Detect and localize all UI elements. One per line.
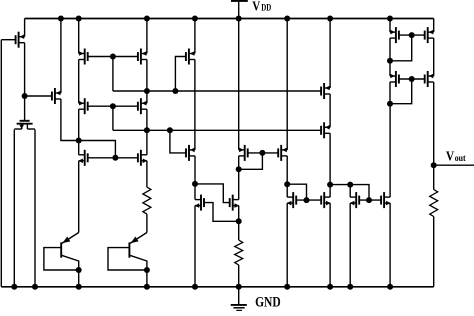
wire wireB to M11 drain — [146, 130, 148, 155]
wire M11 source to R1 — [146, 161, 148, 187]
node P2L drain tie — [387, 101, 393, 107]
ground GND symbol — [231, 287, 247, 311]
resistor R2 — [235, 240, 243, 265]
svg-text:V: V — [252, 0, 260, 15]
transistor M6 (PMOS) — [79, 98, 88, 114]
wire Vout to edge — [434, 164, 474, 166]
wire M6-M7 gates — [88, 105, 138, 107]
transistor M10 (NMOS) — [78, 150, 87, 166]
node M3 source rail — [144, 16, 150, 22]
node MC1 right leg gnd — [32, 284, 38, 290]
transistor M14 (PMOS diode) — [239, 145, 248, 161]
transistor M20 (PMOS) — [425, 27, 434, 43]
wire P1R drain down — [433, 38, 435, 76]
transistor M23 (PMOS diode) — [390, 71, 399, 87]
node P1 gate junction — [409, 32, 415, 38]
wire M21 drain up — [349, 185, 351, 198]
wire M16 source down — [238, 206, 240, 222]
wire R1 to Q2 — [146, 214, 148, 232]
wire M5 gate — [25, 95, 52, 97]
node M17/M18 gate junction — [304, 197, 310, 203]
wire M12 gate drop — [170, 130, 186, 153]
wire M12 drain down — [194, 156, 196, 184]
wire gate tie drop — [239, 153, 263, 169]
wire P2L source — [389, 61, 391, 76]
wire M8 drain to M9 — [329, 94, 331, 127]
node P1L drain tie — [387, 58, 393, 64]
wire M13 gate path — [204, 203, 239, 222]
wire M1 drain down — [24, 43, 26, 121]
wire M2-M3 gates — [88, 56, 138, 58]
wire B (cascode gates) — [113, 129, 321, 131]
transistor M19 (PMOS diode) — [390, 27, 399, 43]
transistor Q2 (PNP diode) — [108, 233, 150, 274]
wire P2 gates — [399, 78, 425, 80]
resistor R1 — [143, 187, 151, 214]
wire P2R drain to Vout — [433, 82, 435, 165]
transistor M1 (PMOS startup) — [16, 32, 25, 48]
transistor M22 (NMOS) — [381, 192, 390, 208]
node M1 drain / M5 gate — [22, 93, 28, 99]
transistor M17 (NMOS diode) — [287, 192, 296, 208]
node wireA M4 gate tap — [172, 88, 178, 94]
node M13 gnd rail — [192, 284, 198, 290]
wire M17 diode tie — [287, 184, 306, 200]
wire M2 drain down — [78, 60, 80, 104]
node P1L source rail — [387, 16, 393, 22]
node M10/M11 gate junction — [112, 155, 118, 161]
node Q2 gnd rail — [144, 284, 150, 290]
wire P1 gates — [399, 34, 425, 36]
wire M4 source up — [194, 19, 196, 54]
wire M8 source up — [329, 19, 331, 89]
label VDD — [252, 0, 271, 15]
wire M14 drain to M16 — [238, 169, 240, 199]
wire M9 drain down — [329, 133, 331, 184]
wire gate node down to wireB — [112, 106, 114, 130]
wire VDD rail — [25, 18, 434, 20]
transistor M13 (NMOS) — [195, 195, 204, 211]
wire M17-M18 gates — [296, 199, 321, 201]
wire M14-M15 gates — [248, 152, 279, 154]
node wireB M12 gate tap — [167, 127, 173, 133]
node P2 gate junction — [409, 76, 415, 82]
label GND — [255, 293, 281, 310]
wire M22 drain up — [389, 104, 391, 197]
node M12 drain / M13 drain — [192, 181, 198, 187]
wire M17 source down — [286, 203, 288, 287]
capacitor MC1 (MOS cap) — [14, 121, 35, 129]
wire P1L source up — [389, 19, 391, 33]
wire VDD drop to M15 — [286, 19, 288, 150]
node M2 source rail — [76, 16, 82, 22]
node GND stem junction — [236, 284, 242, 290]
wire M1 source to VDD rail — [24, 19, 26, 37]
wire M18 source down — [329, 203, 331, 287]
wire VDD drop to M14 — [238, 19, 240, 150]
wire M6 drain down — [78, 109, 80, 140]
wire M22 source down — [389, 203, 391, 287]
node M9 drain junction — [327, 182, 333, 188]
transistor M5 (PMOS) — [52, 88, 61, 104]
node M18 gnd rail — [327, 284, 333, 290]
wire P1L drain down — [389, 38, 391, 61]
transistor M3 (PMOS) — [138, 49, 147, 65]
node M21 drain tap — [347, 182, 353, 188]
transistor M2 (PMOS) — [79, 49, 88, 65]
wire Q2 to gnd — [146, 270, 148, 287]
transistor M21 (NMOS diode) — [350, 192, 359, 208]
node M15 source rail — [284, 16, 290, 22]
transistor M8 (PMOS) — [321, 83, 330, 99]
resistor R3 — [430, 190, 438, 217]
wire M4 gate drop — [175, 57, 186, 92]
node M15 drain / M17 drain — [284, 181, 290, 187]
node VDD stem junction — [236, 16, 242, 22]
wire M4 drain down to M12 — [194, 60, 196, 150]
node M14/M15 gate junction — [259, 150, 265, 156]
node wireA M3 drain — [144, 88, 150, 94]
wire R2 top lead — [238, 221, 240, 240]
wire M2 source up — [78, 19, 80, 54]
wire M1 gate to ground — [0, 40, 2, 287]
transistor M15 (PMOS) — [278, 145, 287, 161]
wire P2L drain down — [389, 82, 391, 104]
transistor Q1 (PNP diode) — [44, 233, 82, 274]
wire M5 drain to node N1 — [61, 99, 79, 141]
node M22 gnd rail — [387, 284, 393, 290]
transistor M4 (PMOS) — [186, 49, 195, 65]
wire A (first mirror gates) — [113, 90, 321, 92]
node Q1 gnd rail — [76, 284, 82, 290]
wire M7 drain to wireB — [146, 109, 148, 130]
node N1 — [76, 138, 82, 144]
wire M7 source up — [146, 91, 148, 103]
node M5 source rail — [58, 16, 64, 22]
svg-text:out: out — [455, 154, 467, 164]
svg-text:GND: GND — [255, 293, 281, 310]
wire M17 drain up — [286, 184, 288, 197]
transistor M9 (PMOS) — [321, 122, 330, 138]
wire GND rail — [1, 286, 433, 288]
node M4 source rail — [192, 16, 198, 22]
wire M3 drain to wireA — [146, 60, 148, 92]
transistor M11 (NMOS) — [138, 150, 147, 166]
wire P2 gate tie — [390, 79, 412, 104]
node M21 gnd rail — [347, 284, 353, 290]
wire M16 gate path — [195, 184, 230, 203]
transistor M24 (PMOS) — [425, 71, 434, 87]
wire M21 source down — [349, 203, 351, 287]
wire M18 drain up — [329, 185, 331, 198]
node M17 gnd rail — [284, 284, 290, 290]
power VDD symbol — [231, 0, 248, 19]
wire M13 source down — [194, 206, 196, 287]
wire M9 drain to M21/M22 gates — [330, 185, 369, 201]
node M6/M7 gate junction — [110, 103, 116, 109]
wire M1 gate — [1, 39, 15, 41]
wire R2 to gnd — [238, 265, 240, 287]
wire N1 to gate node — [79, 141, 116, 158]
wire M3 source up — [146, 19, 148, 54]
wire M10 source down to Q1 — [78, 161, 80, 233]
wire R3 to gnd rail — [433, 217, 435, 287]
wire M21-M22 gates — [359, 199, 381, 201]
wire M14 drain down — [238, 156, 240, 169]
wire M13 drain up — [194, 184, 196, 200]
wire N1 to M10 drain — [78, 141, 80, 155]
node M2/M3 gate junction — [110, 54, 116, 60]
node M16 source / R2 top — [236, 218, 242, 224]
wire M5 source up — [60, 19, 62, 94]
wire MC1 left leg — [13, 130, 15, 287]
wire M10-M11 gates — [88, 157, 138, 159]
wire P1 gate tie — [390, 35, 412, 61]
wire gate node down to wireA — [112, 57, 114, 92]
transistor M7 (PMOS) — [138, 98, 147, 114]
transistor M18 (NMOS) — [321, 192, 330, 208]
wire M15 drain down — [286, 156, 288, 184]
wire Vout to R3 — [433, 165, 435, 189]
wire MC1 right leg — [34, 130, 36, 287]
wire Q1 to gnd — [78, 270, 80, 287]
svg-text:V: V — [446, 150, 454, 165]
node Vout junction — [431, 162, 437, 168]
label Vout — [446, 150, 466, 165]
svg-text:DD: DD — [261, 4, 271, 14]
transistor M12 (PMOS) — [186, 145, 195, 161]
wire P1R source up — [433, 19, 435, 33]
node wireB M7 drain — [144, 127, 150, 133]
node M14 drain tie — [236, 166, 242, 172]
node M8 source rail — [327, 16, 333, 22]
node MC1 left leg gnd — [11, 284, 17, 290]
node M21/M22 gate junction — [366, 197, 372, 203]
transistor M16 (NMOS) — [230, 195, 239, 211]
